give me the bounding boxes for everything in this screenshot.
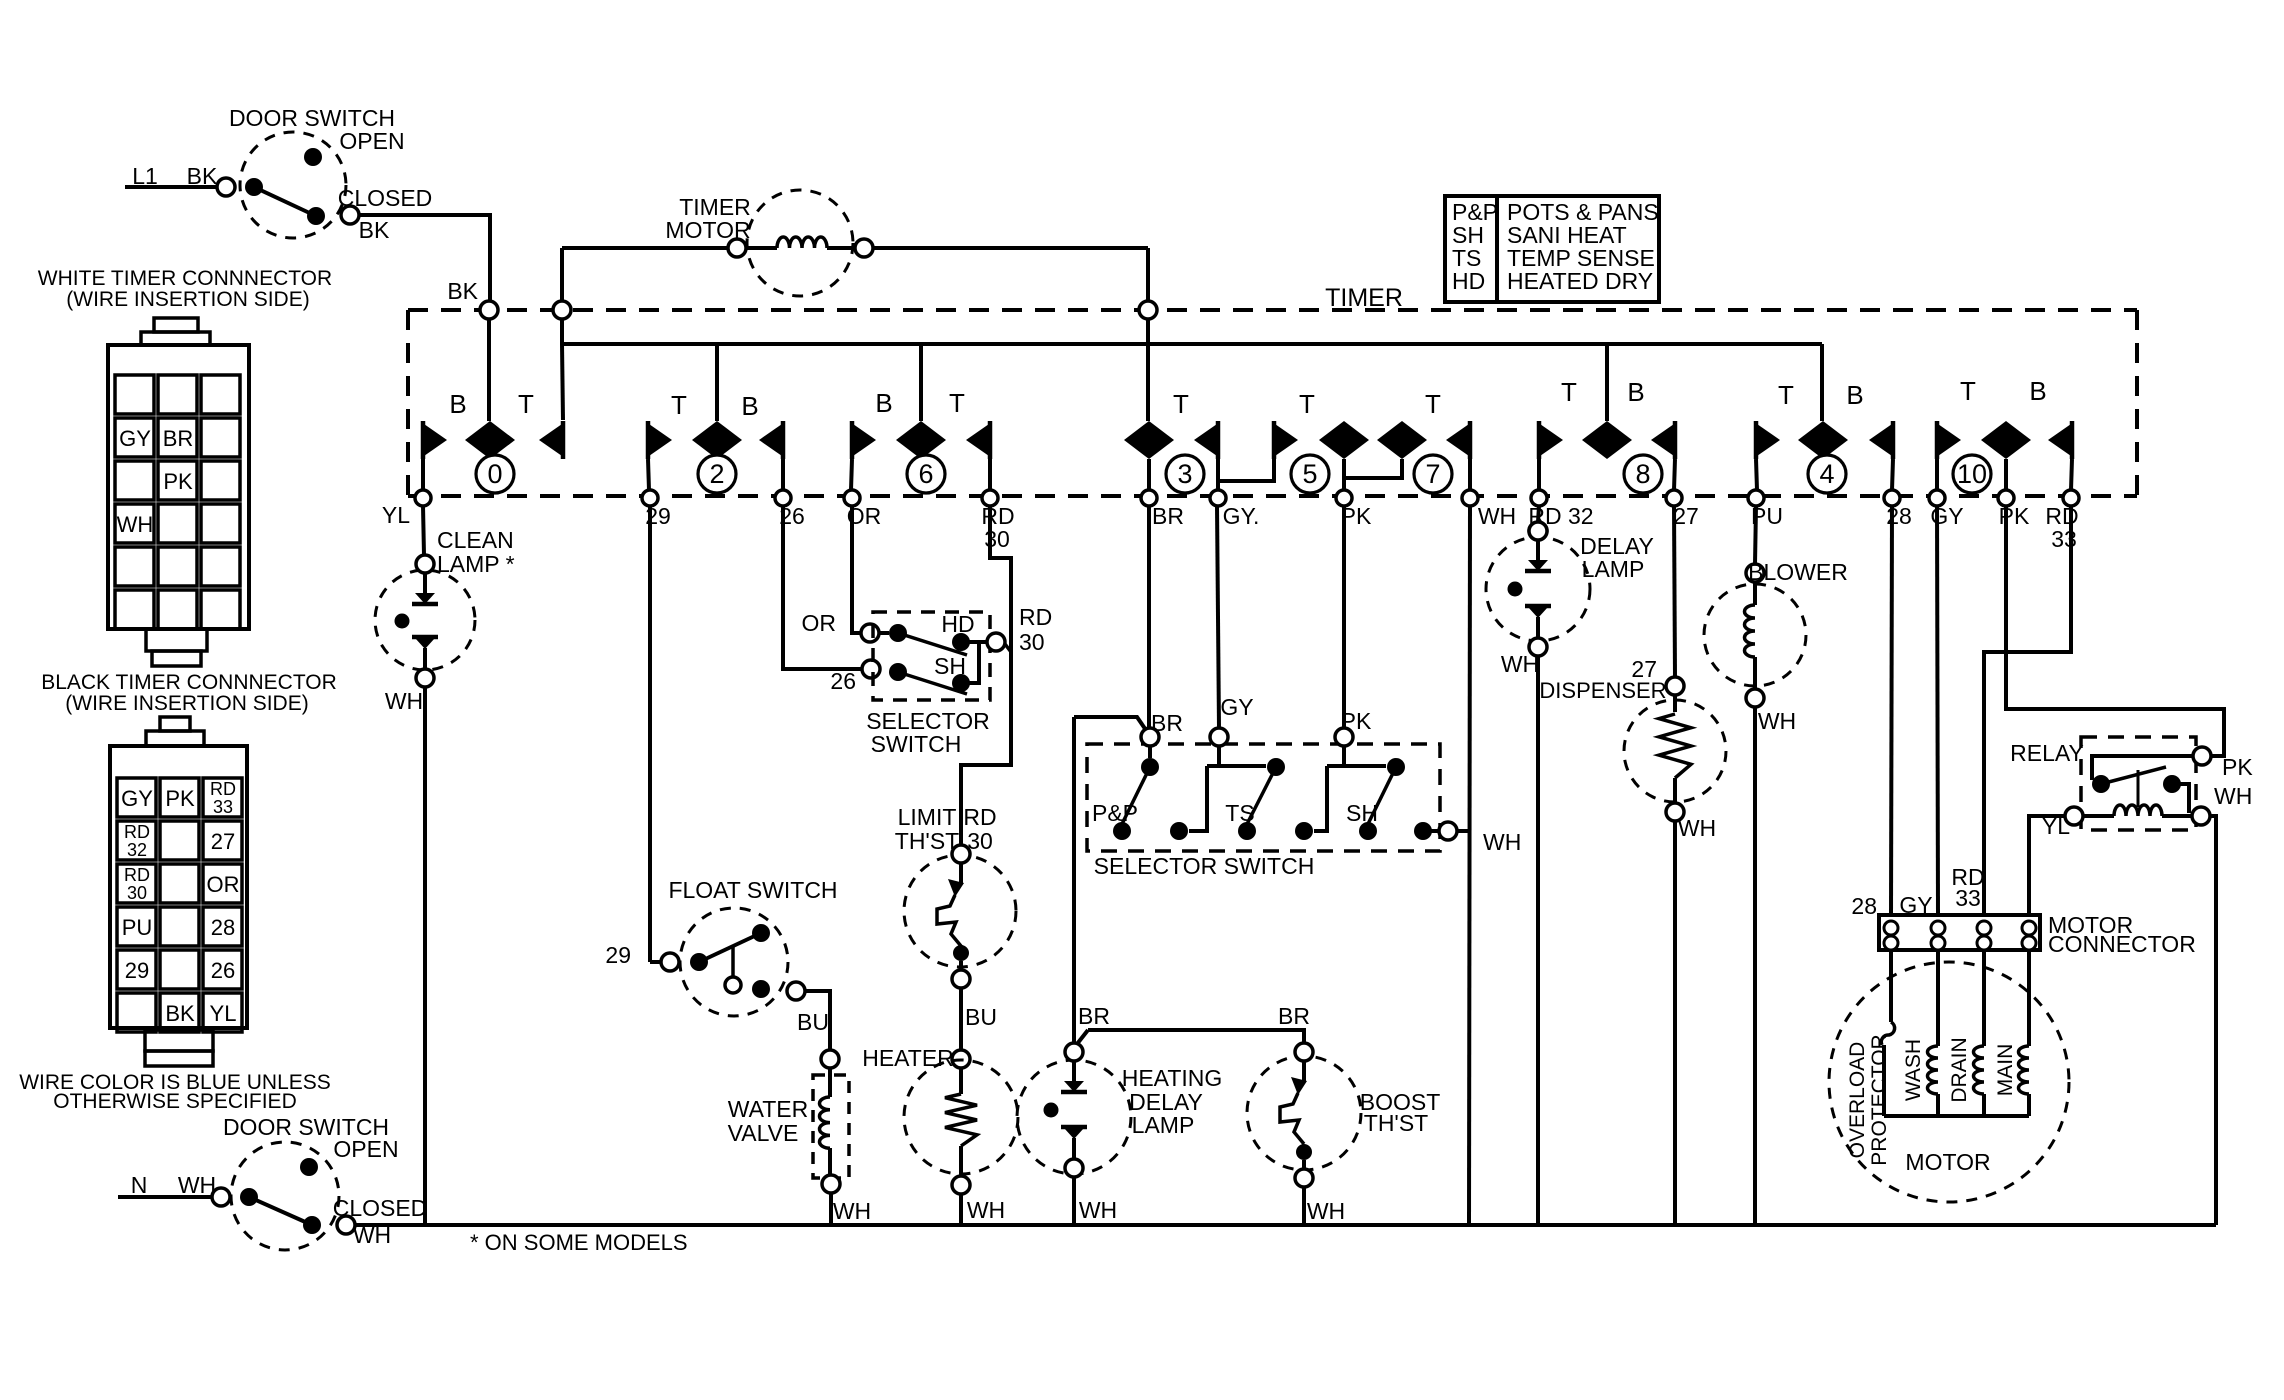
svg-text:WH: WH xyxy=(2214,783,2252,809)
svg-text:PROTECTOR: PROTECTOR xyxy=(1868,1034,1891,1165)
svg-text:TS: TS xyxy=(1225,800,1254,826)
svg-text:WH: WH xyxy=(1478,503,1516,529)
svg-text:WH: WH xyxy=(385,688,423,714)
svg-text:MOTOR: MOTOR xyxy=(1905,1149,1990,1175)
svg-text:BR: BR xyxy=(1278,1003,1310,1029)
svg-text:10: 10 xyxy=(1957,459,1987,489)
svg-text:B: B xyxy=(2029,376,2046,406)
svg-text:PU: PU xyxy=(122,915,153,940)
svg-text:T: T xyxy=(1173,389,1189,419)
svg-text:B: B xyxy=(1627,377,1644,407)
svg-text:OVERLOAD: OVERLOAD xyxy=(1846,1042,1869,1159)
svg-text:GY: GY xyxy=(1220,694,1253,720)
svg-text:30: 30 xyxy=(1019,629,1045,655)
svg-text:PK: PK xyxy=(1999,503,2030,529)
svg-text:WH: WH xyxy=(178,1172,216,1198)
svg-text:26: 26 xyxy=(830,668,856,694)
svg-text:28: 28 xyxy=(211,915,235,940)
svg-text:YL: YL xyxy=(382,502,410,528)
svg-text:HD: HD xyxy=(1452,268,1485,294)
svg-text:30: 30 xyxy=(127,883,147,903)
svg-text:YL: YL xyxy=(210,1001,237,1026)
svg-text:T: T xyxy=(671,390,687,420)
svg-text:GY.: GY. xyxy=(1223,503,1260,529)
svg-text:B: B xyxy=(449,389,466,419)
svg-text:3: 3 xyxy=(1177,459,1192,489)
svg-text:DRAIN: DRAIN xyxy=(1948,1037,1971,1102)
svg-text:TH'ST: TH'ST xyxy=(895,828,959,854)
svg-text:PK: PK xyxy=(163,469,193,494)
svg-text:26: 26 xyxy=(211,958,235,983)
svg-text:WH: WH xyxy=(833,1198,871,1224)
svg-text:OPEN: OPEN xyxy=(333,1136,398,1162)
svg-text:SH: SH xyxy=(1346,800,1378,826)
svg-text:CLEAN: CLEAN xyxy=(437,527,514,553)
svg-text:T: T xyxy=(518,389,534,419)
svg-text:VALVE: VALVE xyxy=(728,1120,799,1146)
svg-text:DISPENSER: DISPENSER xyxy=(1539,678,1666,703)
svg-text:CLOSED: CLOSED xyxy=(333,1195,428,1221)
svg-text:N: N xyxy=(131,1172,148,1198)
svg-text:0: 0 xyxy=(487,459,502,489)
svg-text:BR: BR xyxy=(163,426,194,451)
svg-text:CONNECTOR: CONNECTOR xyxy=(2048,931,2196,957)
svg-text:BK: BK xyxy=(359,217,390,243)
svg-text:LAMP *: LAMP * xyxy=(437,551,515,577)
svg-text:* ON SOME MODELS: * ON SOME MODELS xyxy=(470,1230,688,1255)
svg-text:RELAY: RELAY xyxy=(2010,740,2084,766)
svg-text:2: 2 xyxy=(709,459,724,489)
svg-text:27: 27 xyxy=(1673,503,1699,529)
svg-text:BU: BU xyxy=(797,1009,829,1035)
svg-text:WHITE TIMER CONNNECTOR: WHITE TIMER CONNNECTOR xyxy=(38,267,332,290)
svg-text:HEATED DRY: HEATED DRY xyxy=(1507,268,1653,294)
svg-text:BU: BU xyxy=(965,1004,997,1030)
svg-text:WH: WH xyxy=(117,512,154,537)
svg-text:WH: WH xyxy=(967,1197,1005,1223)
svg-text:LIMIT: LIMIT xyxy=(898,804,957,830)
svg-text:33: 33 xyxy=(213,797,233,817)
svg-text:FLOAT SWITCH: FLOAT SWITCH xyxy=(668,877,837,903)
svg-text:5: 5 xyxy=(1302,459,1317,489)
svg-text:WH: WH xyxy=(1079,1197,1117,1223)
svg-text:6: 6 xyxy=(918,459,933,489)
svg-text:LAMP: LAMP xyxy=(1132,1112,1195,1138)
svg-text:T: T xyxy=(1960,376,1976,406)
svg-text:T: T xyxy=(949,388,965,418)
svg-text:GY: GY xyxy=(121,786,153,811)
svg-text:CLOSED: CLOSED xyxy=(338,185,433,211)
svg-text:WATER: WATER xyxy=(728,1096,809,1122)
svg-text:WH: WH xyxy=(1758,708,1796,734)
svg-text:B: B xyxy=(875,388,892,418)
svg-text:OR: OR xyxy=(802,610,837,636)
svg-text:SELECTOR SWITCH: SELECTOR SWITCH xyxy=(1094,853,1315,879)
svg-text:TH'ST: TH'ST xyxy=(1364,1110,1428,1136)
svg-text:28: 28 xyxy=(1851,893,1877,919)
svg-text:LAMP: LAMP xyxy=(1582,556,1645,582)
svg-text:32: 32 xyxy=(127,840,147,860)
svg-text:RD: RD xyxy=(963,804,996,830)
svg-text:(WIRE INSERTION SIDE): (WIRE INSERTION SIDE) xyxy=(66,288,309,311)
svg-text:29: 29 xyxy=(125,958,149,983)
svg-text:PK: PK xyxy=(2222,754,2253,780)
svg-text:7: 7 xyxy=(1425,459,1440,489)
svg-text:RD: RD xyxy=(124,822,150,842)
svg-text:33: 33 xyxy=(1955,885,1981,911)
svg-text:WH: WH xyxy=(1501,651,1539,677)
svg-text:WH: WH xyxy=(1483,829,1521,855)
svg-text:OTHERWISE SPECIFIED: OTHERWISE SPECIFIED xyxy=(53,1090,296,1113)
svg-text:30: 30 xyxy=(967,828,993,854)
svg-text:T: T xyxy=(1778,380,1794,410)
svg-text:HD: HD xyxy=(941,611,974,637)
svg-text:OPEN: OPEN xyxy=(339,128,404,154)
svg-text:TIMER: TIMER xyxy=(1325,284,1403,312)
svg-text:BK: BK xyxy=(165,1001,195,1026)
svg-text:T: T xyxy=(1299,389,1315,419)
svg-text:RD: RD xyxy=(1019,604,1052,630)
svg-text:SWITCH: SWITCH xyxy=(871,731,962,757)
svg-text:BR: BR xyxy=(1078,1003,1110,1029)
svg-text:B: B xyxy=(741,391,758,421)
svg-text:WASH: WASH xyxy=(1902,1039,1925,1101)
svg-text:RD: RD xyxy=(210,779,236,799)
svg-text:BLOWER: BLOWER xyxy=(1748,559,1848,585)
svg-text:4: 4 xyxy=(1819,459,1834,489)
svg-text:OR: OR xyxy=(207,872,240,897)
svg-text:P&P: P&P xyxy=(1092,800,1138,826)
svg-text:WH: WH xyxy=(1678,815,1716,841)
svg-text:B: B xyxy=(1846,380,1863,410)
svg-text:HEATER: HEATER xyxy=(862,1045,954,1071)
svg-text:HEATING: HEATING xyxy=(1122,1065,1223,1091)
svg-text:BR: BR xyxy=(1152,503,1184,529)
svg-text:T: T xyxy=(1425,389,1441,419)
svg-text:T: T xyxy=(1561,377,1577,407)
svg-text:PK: PK xyxy=(165,786,195,811)
svg-text:(WIRE INSERTION SIDE): (WIRE INSERTION SIDE) xyxy=(65,692,308,715)
svg-text:29: 29 xyxy=(605,942,631,968)
svg-text:WH: WH xyxy=(1307,1198,1345,1224)
svg-text:8: 8 xyxy=(1635,459,1650,489)
svg-text:RD: RD xyxy=(124,865,150,885)
svg-text:27: 27 xyxy=(211,829,235,854)
svg-text:OR: OR xyxy=(847,503,882,529)
svg-text:GY: GY xyxy=(119,426,151,451)
svg-text:BLACK TIMER CONNNECTOR: BLACK TIMER CONNNECTOR xyxy=(41,671,337,694)
svg-text:BK: BK xyxy=(447,278,478,304)
svg-text:MAIN: MAIN xyxy=(1994,1044,2017,1097)
